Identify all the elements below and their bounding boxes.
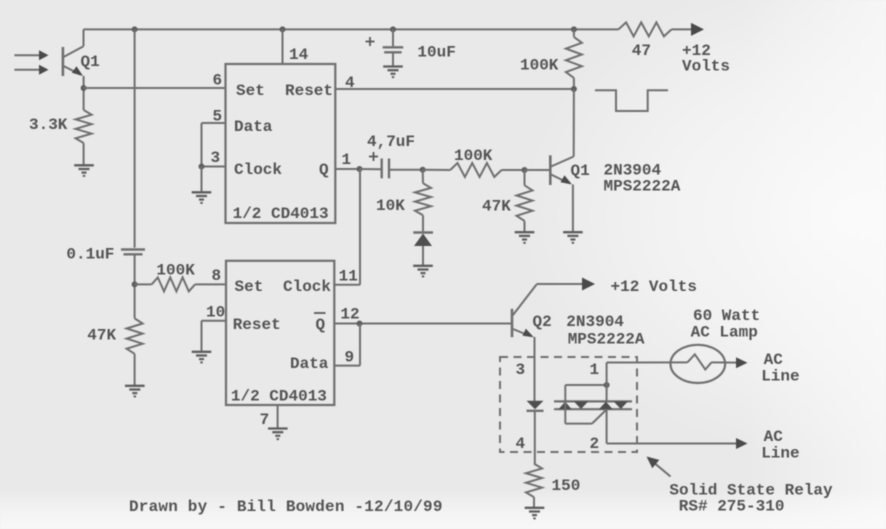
wire relay pin2 to AC line 2 bbox=[607, 443, 736, 445]
svg-text:12: 12 bbox=[340, 306, 359, 324]
svg-text:Q: Q bbox=[319, 161, 329, 179]
svg-text:1/2 CD4013: 1/2 CD4013 bbox=[231, 388, 327, 406]
op-amp U2 1/2 CD4013 flip-flop box bbox=[226, 261, 334, 406]
capacitor C3 4,7uF bbox=[360, 133, 423, 178]
svg-text:6: 6 bbox=[213, 72, 223, 90]
resistor R8 47K bbox=[482, 170, 533, 232]
pin 3 wire Clock bbox=[202, 149, 226, 167]
wire lamp to AC line 1 bbox=[712, 361, 737, 363]
svg-text:7: 7 bbox=[260, 411, 270, 429]
svg-text:Drawn by - Bill Bowden -12/10/: Drawn by - Bill Bowden -12/10/99 bbox=[129, 498, 443, 516]
svg-text:1/2 CD4013: 1/2 CD4013 bbox=[233, 205, 329, 223]
svg-text:Set: Set bbox=[235, 278, 264, 296]
triac symbol inside relay bbox=[554, 401, 632, 409]
svg-text:3.3K: 3.3K bbox=[29, 116, 68, 134]
solid state relay dashed box bbox=[500, 357, 637, 453]
node C2/R2/R3 junction bbox=[132, 281, 138, 287]
svg-text:9: 9 bbox=[345, 349, 355, 367]
wire top rail bbox=[84, 28, 619, 30]
svg-text:Data: Data bbox=[290, 355, 329, 373]
svg-text:10: 10 bbox=[206, 304, 225, 322]
wire relay pin2 vertical bbox=[606, 409, 608, 443]
wire triac gate loop bbox=[565, 385, 606, 424]
wire R1 to ground bbox=[83, 143, 85, 165]
wire C2 to R2 node bbox=[134, 254, 136, 318]
svg-text:100K: 100K bbox=[454, 147, 493, 165]
node triac top bbox=[604, 382, 610, 388]
resistor R9 150 bbox=[526, 464, 580, 508]
svg-text:100K: 100K bbox=[156, 262, 195, 280]
ground below R8 bbox=[515, 232, 535, 243]
svg-text:AC Lamp: AC Lamp bbox=[691, 324, 758, 342]
node Q output junction bbox=[357, 166, 363, 172]
arrow AC line 1 bbox=[736, 351, 800, 386]
svg-text:AC: AC bbox=[764, 351, 784, 369]
node top rail / C2 branch bbox=[132, 26, 138, 32]
wire reset node to Q1 collector bbox=[573, 89, 575, 157]
pin 8 label bbox=[212, 267, 222, 285]
arrow +12 Volts supply bbox=[682, 23, 730, 76]
pin 10 wire Reset bbox=[202, 304, 227, 352]
svg-text:60 Watt: 60 Watt bbox=[693, 307, 760, 325]
svg-text:2N3904: 2N3904 bbox=[566, 313, 624, 331]
ground below R9 bbox=[525, 508, 545, 519]
capacitor C1 10uF bbox=[366, 29, 456, 66]
wire relay pin1 vertical bbox=[606, 363, 608, 402]
svg-text:MPS2222A: MPS2222A bbox=[604, 178, 681, 196]
svg-text:3: 3 bbox=[516, 361, 526, 379]
node pin12 / pin9 junction bbox=[357, 321, 363, 327]
pin 12 wire Q-bar bbox=[334, 306, 512, 324]
pin 1 wire Q output bbox=[335, 151, 359, 169]
node C3 / R4 junction bbox=[420, 167, 426, 173]
ground pin 7 bbox=[268, 429, 288, 440]
node R5 / R8 junction bbox=[522, 167, 528, 173]
wire pin1 to lamp bbox=[607, 361, 688, 363]
wire Q1 emitter to ground bbox=[572, 185, 574, 233]
svg-text:AC: AC bbox=[764, 428, 784, 446]
svg-text:4,7uF: 4,7uF bbox=[367, 133, 415, 151]
svg-text:Volts: Volts bbox=[682, 58, 730, 76]
svg-text:MPS2222A: MPS2222A bbox=[568, 331, 645, 349]
wire pin3 node to ground bbox=[201, 167, 203, 193]
wire R8 node to Q1 base bbox=[525, 169, 551, 171]
ground pin 10 bbox=[192, 352, 212, 363]
resistor R1 3.3K bbox=[29, 110, 92, 143]
svg-text:2: 2 bbox=[590, 435, 600, 453]
svg-text:11: 11 bbox=[339, 268, 358, 286]
svg-text:1: 1 bbox=[590, 361, 600, 379]
svg-text:0.1uF: 0.1uF bbox=[66, 246, 114, 264]
light input arrows bbox=[14, 50, 48, 74]
svg-text:4: 4 bbox=[345, 74, 355, 92]
svg-text:3: 3 bbox=[211, 149, 221, 167]
svg-text:Line: Line bbox=[761, 368, 799, 386]
svg-text:RS# 275-310: RS# 275-310 bbox=[679, 498, 785, 516]
svg-text:Line: Line bbox=[761, 445, 799, 463]
transistor Q1 phototransistor bbox=[63, 46, 100, 76]
lamp 60 Watt AC bbox=[671, 307, 761, 383]
op-amp U1 1/2 CD4013 flip-flop box bbox=[226, 64, 336, 223]
node Q1 emitter junction bbox=[81, 85, 87, 91]
svg-text:150: 150 bbox=[552, 477, 581, 495]
arrow +12 Volts at Q2 bbox=[582, 278, 697, 297]
wire main vertical to C2 bbox=[134, 29, 136, 247]
svg-text:8: 8 bbox=[212, 267, 222, 285]
ground below R1 bbox=[74, 165, 94, 176]
svg-text:4: 4 bbox=[516, 435, 526, 453]
svg-text:Q: Q bbox=[316, 316, 326, 334]
pin 11 wire Clock bbox=[334, 169, 360, 286]
annotation arrow to relay box bbox=[647, 457, 834, 516]
arrow AC line 2 bbox=[736, 428, 800, 463]
svg-text:47K: 47K bbox=[87, 327, 116, 345]
pin 9 wire Data bbox=[334, 324, 360, 367]
svg-text:47: 47 bbox=[632, 42, 651, 60]
svg-text:10K: 10K bbox=[376, 197, 405, 215]
wire Q1 emitter bbox=[83, 76, 85, 110]
pulse waveform symbol bbox=[595, 90, 668, 111]
svg-text:1: 1 bbox=[342, 151, 352, 169]
resistor R5 100K bbox=[423, 147, 525, 177]
transistor Q2 2N3904 bbox=[512, 285, 645, 349]
svg-text:Reset: Reset bbox=[233, 316, 281, 334]
node R6 bottom / reset node bbox=[571, 86, 577, 92]
svg-text:Clock: Clock bbox=[234, 161, 282, 179]
node top rail / pin14 branch bbox=[280, 26, 286, 32]
svg-text:Clock: Clock bbox=[283, 278, 331, 296]
pin 7 wire bbox=[260, 405, 278, 429]
wire Q2 emitter down bbox=[534, 337, 536, 401]
wire R7 to +12V arrow bbox=[672, 28, 692, 30]
ground pins 3-5 bbox=[192, 192, 212, 203]
pin 4 wire Reset bbox=[335, 74, 574, 92]
svg-text:Data: Data bbox=[234, 118, 273, 136]
pin 6 wire Set bbox=[84, 72, 226, 90]
node top rail / C1 branch bbox=[390, 26, 396, 32]
svg-text:100K: 100K bbox=[520, 57, 559, 75]
svg-text:Q1: Q1 bbox=[81, 53, 100, 71]
resistor R4 10K bbox=[376, 170, 431, 232]
resistor R2 47K bbox=[87, 318, 142, 353]
svg-text:+12 Volts: +12 Volts bbox=[611, 278, 697, 296]
diode D1 bbox=[413, 233, 433, 266]
ground below D1 bbox=[413, 266, 433, 277]
wire Q1 collector to top rail bbox=[83, 29, 85, 46]
svg-text:Q2: Q2 bbox=[533, 313, 552, 331]
pin 14 wire bbox=[283, 29, 309, 64]
node top rail / R6 branch bbox=[571, 26, 577, 32]
wire Q2 collector to +12V bbox=[537, 283, 584, 286]
resistor R6 100K bbox=[520, 29, 582, 89]
ground below C1 bbox=[383, 67, 403, 78]
svg-text:14: 14 bbox=[289, 46, 309, 64]
resistor R3 100K bbox=[135, 262, 226, 292]
svg-text:Q1: Q1 bbox=[571, 162, 590, 180]
resistor R7 47 bbox=[619, 22, 672, 59]
svg-text:Reset: Reset bbox=[285, 82, 333, 100]
LED inside relay bbox=[527, 401, 544, 464]
svg-text:Set: Set bbox=[236, 82, 265, 100]
node pin3/pin5 junction bbox=[199, 164, 205, 170]
pin 5 stub Data bbox=[202, 108, 226, 167]
ground below R2 bbox=[125, 386, 145, 397]
capacitor C2 0.1uF bbox=[66, 246, 145, 264]
transistor Q1 2N3904 bbox=[550, 155, 680, 195]
wire R2 to ground bbox=[134, 354, 136, 386]
svg-text:5: 5 bbox=[213, 108, 223, 126]
ground below Q1 bbox=[563, 232, 583, 243]
title text bbox=[129, 498, 443, 516]
svg-text:10uF: 10uF bbox=[417, 44, 455, 62]
svg-text:47K: 47K bbox=[482, 198, 511, 216]
